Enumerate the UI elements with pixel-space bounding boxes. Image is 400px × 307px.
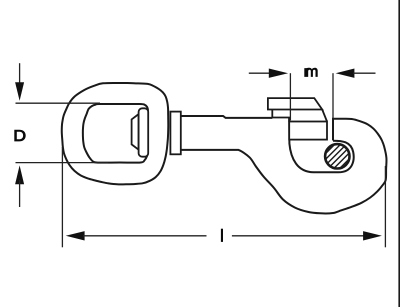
hatching <box>304 135 373 175</box>
swivel eye inner opening <box>83 104 148 163</box>
latch plate <box>289 122 327 140</box>
image right border line <box>398 0 400 307</box>
label m <box>304 68 317 77</box>
dimension l right extension line <box>384 166 386 247</box>
dimension l right arrow <box>232 235 365 237</box>
neck top edge <box>181 116 272 118</box>
swivel stud trapezoid <box>132 114 139 150</box>
hook inner eye contour <box>289 118 353 173</box>
swivel stud face <box>139 108 149 156</box>
label D <box>14 130 25 142</box>
latch step <box>272 110 289 122</box>
latch slant edge <box>322 110 327 122</box>
dimension m right extension line <box>332 73 334 118</box>
swivel barrel <box>170 112 180 155</box>
dimension m left extension line <box>289 73 291 120</box>
dimension D bottom extension line <box>16 162 109 164</box>
dimension D top extension line <box>16 102 101 104</box>
latch thumb tab <box>268 98 322 109</box>
dimension m right arrow and line <box>336 69 355 78</box>
bar cross-section circle <box>325 144 349 168</box>
label l <box>221 229 223 242</box>
dimension m left line and arrow <box>249 72 270 74</box>
dimension l left extension line <box>61 147 63 247</box>
swivel eye outer contour <box>62 83 169 184</box>
dimension D top arrow <box>19 63 21 86</box>
hook body outer contour <box>181 119 386 214</box>
dimension D bottom arrow <box>15 165 24 184</box>
dimension l left arrow <box>66 231 85 240</box>
